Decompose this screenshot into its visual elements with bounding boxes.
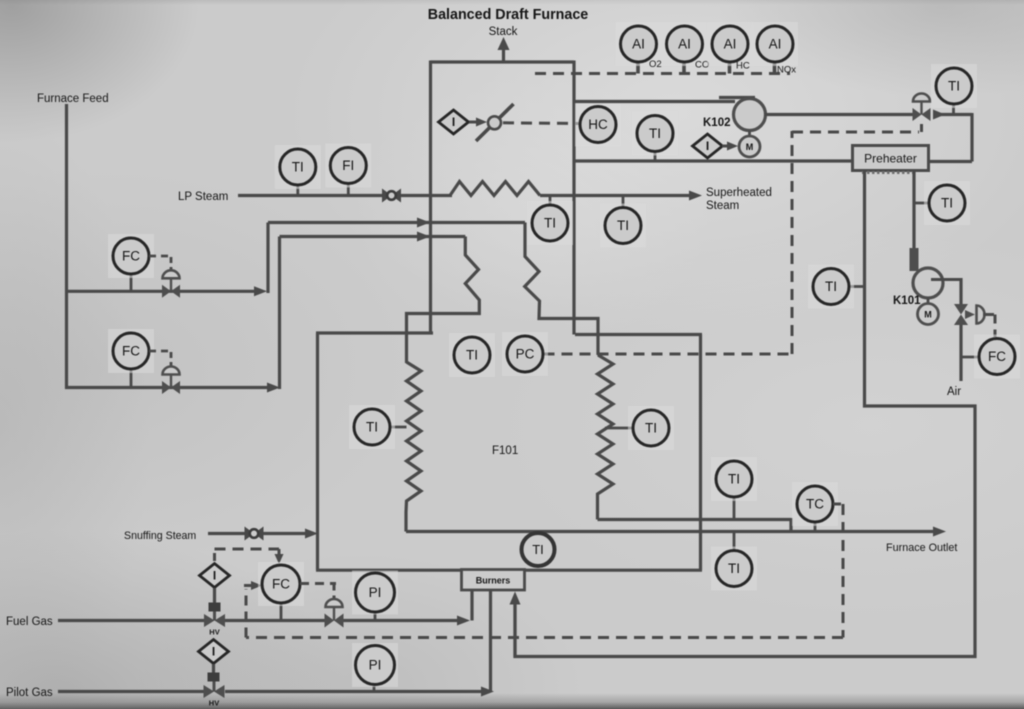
controller TC stem bbox=[814, 522, 817, 532]
svg-text:M: M bbox=[746, 142, 754, 152]
svg-text:FC: FC bbox=[272, 577, 290, 592]
damper blade bbox=[476, 104, 514, 141]
svg-text:PI: PI bbox=[369, 658, 382, 673]
K102 outlet line bbox=[764, 113, 913, 116]
radiant coil left bbox=[406, 362, 421, 532]
LP steam gate valve bbox=[382, 189, 392, 203]
stack box right wall bbox=[572, 61, 575, 335]
firebox left wall bbox=[316, 333, 319, 570]
controller HC bbox=[575, 103, 621, 147]
indicator TI flue bbox=[632, 112, 678, 156]
svg-text:TI: TI bbox=[728, 561, 740, 576]
analyzer AI3 stem bbox=[728, 60, 732, 74]
controller FC fuel bbox=[258, 562, 304, 606]
indicator TI steam stem bbox=[296, 185, 299, 196]
dashed FC air signal bbox=[983, 313, 995, 316]
motor M of K101 bbox=[918, 304, 939, 325]
indicator TI coil-left bbox=[349, 405, 395, 449]
burners box bbox=[462, 570, 525, 591]
combustion air duct bbox=[515, 171, 975, 657]
dashed damper-HC signal bbox=[503, 121, 580, 125]
feed valve pass1 bbox=[162, 285, 171, 298]
svg-text:Balanced Draft Furnace: Balanced Draft Furnace bbox=[428, 7, 589, 23]
svg-text:Snuffing Steam: Snuffing Steam bbox=[124, 530, 196, 542]
svg-text:TI: TI bbox=[948, 79, 960, 94]
svg-text:TC: TC bbox=[806, 497, 824, 512]
air inlet valve bbox=[954, 304, 968, 315]
arrow diamond to pilot valve bbox=[212, 664, 215, 675]
convection coil right bbox=[525, 223, 598, 356]
damper pivot circle bbox=[488, 116, 501, 129]
feed pass2 upper line bbox=[280, 235, 466, 238]
stack box left wall bbox=[429, 61, 432, 334]
svg-text:TI: TI bbox=[645, 421, 657, 436]
feed header bbox=[65, 104, 68, 389]
indicator TI sh2 stem bbox=[622, 196, 625, 209]
fuel interlock diamond I bbox=[200, 564, 230, 588]
svg-text:I: I bbox=[212, 645, 215, 659]
wire valve to preheater right bbox=[940, 113, 972, 116]
svg-text:Air: Air bbox=[947, 386, 961, 398]
furnace outlet line bbox=[406, 530, 935, 533]
indicator TI stack outlet bbox=[931, 64, 977, 108]
svg-text:I: I bbox=[213, 569, 216, 583]
svg-text:TI: TI bbox=[532, 542, 544, 557]
analyzer AI2 bbox=[662, 22, 708, 66]
K101 outlet tangent bbox=[931, 278, 961, 281]
svg-text:LP Steam: LP Steam bbox=[178, 191, 228, 203]
analyzer AI4 stem bbox=[773, 60, 777, 74]
indicator TI outlet-lower stem bbox=[733, 532, 736, 551]
stack arrow bbox=[502, 49, 505, 62]
snuffing gate valve bbox=[245, 527, 255, 541]
controller PC bbox=[502, 332, 548, 376]
dashed PC signal bbox=[544, 353, 793, 356]
feed pass2 line bbox=[65, 386, 268, 389]
svg-text:PI: PI bbox=[369, 585, 382, 600]
snuffing steam line bbox=[208, 532, 308, 535]
indicator TI stack outlet stem bbox=[952, 104, 955, 115]
indicator PI pilot bbox=[352, 643, 398, 687]
controller FC fuel stem bbox=[280, 603, 283, 621]
air valve actuator dome bbox=[977, 306, 985, 324]
indicator TI sh1 stem bbox=[549, 196, 552, 207]
svg-text:Superheated: Superheated bbox=[706, 187, 772, 199]
svg-text:FC: FC bbox=[988, 349, 1006, 364]
controller FC pass1 bbox=[108, 234, 154, 278]
superheater coil bbox=[450, 182, 540, 196]
indicator FI steam bbox=[325, 144, 371, 188]
svg-text:HV: HV bbox=[209, 628, 219, 637]
indicator TI outlet-upper bbox=[711, 457, 757, 501]
pilot riser to burners bbox=[489, 590, 492, 692]
svg-text:AI: AI bbox=[769, 37, 782, 52]
svg-text:F101: F101 bbox=[492, 445, 518, 457]
dashed interlock to FC bbox=[213, 549, 216, 561]
indicator TI sh2 bbox=[600, 204, 646, 248]
dashed analyzer header bbox=[535, 72, 790, 75]
indicator TI steam bbox=[275, 145, 321, 189]
feed valve pass2 bbox=[162, 381, 171, 394]
indicator TI K101 bbox=[924, 181, 970, 225]
svg-text:TI: TI bbox=[941, 196, 953, 211]
controller FC air stem bbox=[961, 356, 980, 359]
svg-text:AI: AI bbox=[678, 37, 691, 52]
analyzer AI4 bbox=[752, 22, 798, 66]
svg-text:FC: FC bbox=[122, 249, 140, 264]
indicator TI sh1 bbox=[527, 201, 573, 245]
indicator TI outlet-lower bbox=[711, 547, 757, 591]
indicator TI coil-right bbox=[628, 406, 674, 450]
fan K102 bbox=[734, 99, 766, 131]
controller FC pass2 stem bbox=[130, 369, 133, 388]
svg-text:HC: HC bbox=[736, 61, 750, 72]
air inlet riser lower bbox=[959, 325, 962, 381]
svg-text:TI: TI bbox=[466, 348, 478, 363]
svg-text:Pilot Gas: Pilot Gas bbox=[6, 687, 53, 699]
indicator TI coil-right stem bbox=[605, 427, 634, 430]
indicator TI air duct bbox=[808, 265, 854, 309]
indicator PI pilot stem bbox=[373, 685, 376, 692]
flue damper valve bbox=[913, 108, 922, 121]
indicator TI firebox floor bbox=[522, 533, 555, 566]
svg-text:HV: HV bbox=[209, 699, 219, 708]
indicator TI coil-left stem bbox=[390, 426, 407, 429]
indicator FI steam stem bbox=[347, 183, 350, 196]
K101 inlet bar bbox=[910, 248, 919, 271]
controller FC pass2 bbox=[108, 329, 154, 373]
preheater seal texture bbox=[862, 171, 914, 174]
svg-text:TI: TI bbox=[292, 160, 304, 175]
arrow diamond to damper bbox=[469, 121, 479, 124]
feed pass2 riser bbox=[278, 237, 281, 390]
svg-text:NOx: NOx bbox=[777, 65, 796, 76]
dashed TC output bbox=[833, 503, 843, 506]
fuel gas line bbox=[58, 619, 204, 622]
pilot interlock diamond I bbox=[199, 640, 229, 664]
indicator TI air duct stem bbox=[849, 285, 865, 288]
firebox right shoulder bbox=[575, 333, 702, 336]
indicator TI flue stem bbox=[654, 151, 657, 161]
svg-text:Burners: Burners bbox=[476, 576, 511, 586]
svg-text:Furnace Outlet: Furnace Outlet bbox=[886, 542, 957, 554]
fuel riser to burners bbox=[470, 590, 473, 621]
svg-text:HC: HC bbox=[588, 117, 608, 132]
svg-text:TI: TI bbox=[825, 279, 837, 294]
svg-text:Fuel Gas: Fuel Gas bbox=[6, 616, 53, 628]
dashed FC pass2 signal bbox=[149, 350, 171, 353]
svg-text:TI: TI bbox=[649, 126, 661, 141]
controller FC pass1 stem bbox=[130, 274, 133, 291]
indicator TI outlet-upper stem bbox=[733, 498, 736, 520]
svg-text:O2: O2 bbox=[649, 59, 662, 70]
air valve actuator arrow bbox=[965, 310, 975, 319]
fuel control valve bbox=[325, 614, 335, 628]
fuel HV valve bbox=[204, 614, 215, 627]
fan K102 inlet tangent bbox=[719, 96, 755, 99]
svg-text:I: I bbox=[452, 115, 455, 129]
svg-text:FI: FI bbox=[342, 158, 354, 173]
damper actuator diamond I bbox=[439, 110, 469, 134]
svg-text:Stack: Stack bbox=[489, 26, 518, 38]
svg-text:K101: K101 bbox=[893, 295, 921, 307]
feed pass1 riser bbox=[266, 223, 269, 294]
convection coil left bbox=[407, 237, 480, 364]
stack box top bbox=[431, 60, 575, 63]
svg-text:AI: AI bbox=[632, 37, 645, 52]
feed pass1 upper line bbox=[268, 221, 525, 224]
motor M of K102 bbox=[739, 136, 760, 157]
fan K101 bbox=[913, 268, 943, 298]
arrow diamond to motor bbox=[722, 145, 729, 148]
dashed FC to fuel valve bbox=[300, 582, 336, 585]
arrow after flue valve bbox=[933, 110, 945, 120]
svg-text:AI: AI bbox=[724, 37, 737, 52]
pilot gas line bbox=[58, 690, 204, 693]
svg-text:TI: TI bbox=[728, 472, 740, 487]
flue duct upper bbox=[574, 100, 735, 103]
svg-text:TI: TI bbox=[617, 218, 629, 233]
controller TC bbox=[792, 482, 838, 526]
svg-text:Furnace Feed: Furnace Feed bbox=[37, 93, 109, 105]
LP steam line bbox=[238, 194, 452, 197]
analyzer AI2 stem bbox=[682, 60, 686, 74]
analyzer AI1 bbox=[616, 22, 662, 66]
firebox right wall bbox=[699, 335, 702, 571]
dashed FC pass1 signal bbox=[149, 255, 171, 258]
svg-text:Preheater: Preheater bbox=[864, 152, 917, 166]
svg-text:M: M bbox=[924, 310, 932, 320]
svg-text:TI: TI bbox=[544, 216, 556, 231]
svg-text:Steam: Steam bbox=[706, 200, 739, 212]
svg-text:I: I bbox=[706, 139, 709, 153]
svg-text:PC: PC bbox=[516, 347, 535, 362]
arrow TC to FC bbox=[244, 584, 252, 587]
flue return line preheater-stack bbox=[574, 159, 853, 162]
indicator PI fuel bbox=[352, 571, 398, 615]
preheater box bbox=[853, 146, 929, 171]
indicator PI fuel stem bbox=[374, 612, 377, 621]
svg-text:FC: FC bbox=[122, 344, 140, 359]
feed pass1 line bbox=[65, 290, 256, 293]
arrow diamond to fuel valve bbox=[213, 588, 216, 604]
right coil outlet bbox=[598, 518, 792, 521]
K102 motor stem bbox=[748, 131, 751, 137]
svg-text:K102: K102 bbox=[703, 117, 731, 129]
indicator TI arch bbox=[449, 333, 495, 377]
svg-text:TI: TI bbox=[366, 420, 378, 435]
pilot HV valve bbox=[204, 685, 215, 698]
K101 motor stem bbox=[927, 298, 930, 303]
K101 suction duct bbox=[912, 171, 915, 251]
indicator TI K101 stem bbox=[915, 202, 929, 205]
controller FC air bbox=[974, 335, 1020, 379]
air inlet riser upper bbox=[959, 278, 962, 304]
air arrow into burners bbox=[513, 604, 516, 657]
analyzer AI1 stem bbox=[636, 60, 640, 74]
radiant coil right bbox=[598, 355, 614, 520]
analyzer AI3 bbox=[707, 22, 753, 66]
K102 interlock diamond I bbox=[693, 134, 723, 158]
firebox bottom bbox=[316, 569, 702, 572]
firebox left shoulder bbox=[316, 331, 433, 334]
superheated steam line bbox=[540, 194, 692, 197]
